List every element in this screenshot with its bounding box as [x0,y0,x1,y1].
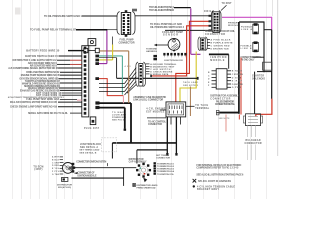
wire T2 tan mid [189,87,191,117]
svg-text:ENGINE TEMP SENSOR WIRE NO 35: ENGINE TEMP SENSOR WIRE NO 35 [21,74,61,77]
wire W3 to ignition coil [135,15,209,17]
svg-text:(4057): (4057) [34,168,42,171]
svg-text:SEE ALSO ILLUSTRATION STARTING: SEE ALSO ILLUSTRATION STARTING PAGE 6 [196,174,244,177]
right pins thick rows [95,84,124,110]
svg-text:SEE NOTE: SEE NOTE [219,118,231,120]
svg-text:CONNECTOR IGNITION SYSTEM: CONNECTOR IGNITION SYSTEM [76,162,106,164]
svg-text:MODULE: MODULE [210,59,224,62]
svg-text:CONNECTOR: CONNECTOR [156,158,170,160]
svg-text:F GROUND: F GROUND [232,84,243,86]
svg-text:PLUG 4057: PLUG 4057 [84,127,100,130]
svg-text:G TAN: G TAN [52,173,60,176]
right bus black segment [271,30,273,99]
starter solenoid box [252,62,272,80]
svg-text:CHECK ENGINE LAMP DRIVE WIRE N: CHECK ENGINE LAMP DRIVE WIRE NO 419 [10,106,58,109]
EST module U3 [166,102,186,125]
svg-text:SET TIMING LEAD: SET TIMING LEAD [79,149,99,152]
tick mark above capsule [132,9,137,12]
connector C1 fuel pump connector [117,10,135,44]
svg-text:BATTERY FEED WIRE 30: BATTERY FEED WIRE 30 [26,50,60,53]
faint smudge top left [15,8,21,15]
svg-text:A-2: A-2 [167,9,174,12]
set timing harness wires [100,103,178,163]
tan wire [99,50,128,52]
svg-text:TERMINAL: TERMINAL [195,107,210,110]
long wire L2 lower [71,168,123,186]
ECU connector tail [80,117,101,149]
svg-text:TO SPARK PLUG 1: TO SPARK PLUG 1 [157,162,175,165]
svg-text:EST MODULE: EST MODULE [146,111,164,113]
svg-text:A PINK BLACK: A PINK BLACK [211,38,231,41]
svg-text:E SERIAL DATA: E SERIAL DATA [150,73,168,76]
terminal rows right of C3 [146,63,177,76]
red ECM wire [95,77,123,95]
wire W6 thick feed to rail [216,110,239,120]
svg-text:JUNCTION BLOCK: JUNCTION BLOCK [80,144,101,146]
svg-text:PULSE GENERATOR: PULSE GENERATOR [216,100,234,103]
wire W1 to fuel pump connector [44,14,118,18]
svg-text:IGNITION MODULE: IGNITION MODULE [78,175,97,177]
connector C3 ALDL fan-in [125,62,167,102]
svg-text:TO SPARK PLUG 4: TO SPARK PLUG 4 [157,170,175,173]
ignition module U2 tach filter [208,54,243,89]
svg-text:COIL: COIL [204,9,212,13]
svg-text:F PPL: F PPL [52,171,60,173]
svg-text:SOLENOID: SOLENOID [252,78,265,80]
svg-text:OIL PRESSURE SWITCH NO 2: OIL PRESSURE SWITCH NO 2 [150,26,185,29]
label EST left [146,108,166,127]
label injector feed [149,6,175,12]
svg-text:B BLK: B BLK [52,160,60,162]
svg-text:IGN (4 PLUG): IGN (4 PLUG) [58,186,71,189]
junction block rails [239,22,272,114]
svg-text:D RED: D RED [52,165,60,167]
TO ECM label rows [33,156,63,176]
svg-text:SEE DETAIL B: SEE DETAIL B [79,151,96,154]
svg-text:B TACH: B TACH [232,70,242,73]
ECU connector main strip [82,46,89,117]
svg-text:TO DIST: TO DIST [222,3,233,5]
purple wire [95,31,107,66]
distributor note [133,183,158,189]
svg-text:TACH LEAD: TACH LEAD [183,81,198,84]
svg-text:A-B CONDITIONING SIGNAL DETECT: A-B CONDITIONING SIGNAL DETECTOR NO 66 [8,67,59,70]
wire R2 red ignition feed [150,26,211,77]
wire Y1 yellow EST [180,52,196,102]
svg-text:TO SPARK PLUG 3: TO SPARK PLUG 3 [157,168,175,171]
svg-text:C GREEN RED: C GREEN RED [211,45,230,47]
green wire [95,55,122,95]
wire M1 magenta coil feed [222,17,272,29]
svg-text:TO MAIN: TO MAIN [112,111,125,114]
wire W5 to fuel pump relay [150,23,212,30]
connector C2 distributor pickup [198,30,236,50]
ignition coil U1 [204,3,232,32]
fusible link F1 [241,23,258,34]
svg-text:V8 ENG ONLY: V8 ENG ONLY [241,59,255,61]
svg-text:G PWR: G PWR [232,87,241,89]
svg-text:TO OIL PRESSURE SWITCH NO 1: TO OIL PRESSURE SWITCH NO 1 [44,14,83,18]
black stub down wire [99,58,117,79]
distributor arrow [143,178,147,182]
long wire L1 to distributor [74,167,136,169]
svg-text:D EST: D EST [232,77,242,79]
distributor ring [136,163,151,178]
svg-text:CONNECTOR DETAIL: CONNECTOR DETAIL [241,56,263,59]
label distributor assembly connector [210,95,239,107]
svg-text:A WHT: A WHT [52,156,60,159]
svg-text:JUNCTION BLOCK: JUNCTION BLOCK [164,60,183,62]
svg-text:SET TIMING: SET TIMING [156,155,169,157]
svg-text:CONNECTOR: CONNECTOR [148,124,162,126]
label to main loom [112,111,126,122]
svg-text:COMPONENTS REFER TO FIG 1 2 3: COMPONENTS REFER TO FIG 1 2 3 4 5 [196,167,239,170]
svg-text:CONNECTOR: CONNECTOR [210,97,230,100]
wire R1 red battery feed [176,21,212,102]
svg-text:HARNESS: HARNESS [146,50,158,53]
wire W2 fuel pump feed [30,28,118,32]
svg-text:DISTRIBUTOR LEADS: DISTRIBUTOR LEADS [137,184,159,187]
wire N1 long black tach wire [117,77,199,87]
svg-text:LINK A: LINK A [241,28,252,31]
distributor terminal rows [154,162,175,176]
svg-text:B PURPLE WHITE: B PURPLE WHITE [211,42,234,44]
coil base box [57,178,72,189]
svg-text:CONNECTOR: CONNECTOR [245,143,262,145]
svg-text:SEE FIG 5: SEE FIG 5 [112,120,125,122]
yellow wire [95,37,112,62]
ECU connector top tab [88,39,96,46]
ignition coil connector S2 [63,162,108,178]
terminal row TR mid [153,53,186,62]
label junction note [241,56,263,62]
svg-text:TO TACH: TO TACH [195,104,208,107]
svg-text:LINK B: LINK B [241,48,252,50]
svg-text:BULKHEAD: BULKHEAD [246,139,261,142]
svg-text:EXHAUST GAS RECIRC SOLENOID 43: EXHAUST GAS RECIRC SOLENOID 435 [20,89,61,92]
svg-text:LINK (ALDL) CONNECTOR: LINK (ALDL) CONNECTOR [133,99,163,102]
wire R4 red vertical [239,58,241,120]
svg-text:SPLICE JOINT IN HARNESS: SPLICE JOINT IN HARNESS [198,180,231,183]
right bus red segment R3 [256,99,272,117]
wire P1 purple EST wire [191,8,201,54]
svg-text:CONNECTOR DETAIL: CONNECTOR DETAIL [215,103,236,106]
svg-text:ASSEMBLY LINE DIAGNOSTIC: ASSEMBLY LINE DIAGNOSTIC [133,96,166,99]
wire W4 injector stub [167,8,191,12]
svg-text:423: 423 [125,65,132,68]
wire tach output [186,104,210,110]
svg-text:WIRING: WIRING [228,25,238,27]
svg-text:CONNECTOR OF: CONNECTOR OF [78,173,96,175]
svg-text:IGNITION SWITCH FEED 15: IGNITION SWITCH FEED 15 [25,55,59,58]
coolant sensor S1 [146,31,183,53]
ECU right side pins and colored wires [99,51,128,103]
svg-text:E REF: E REF [232,81,243,83]
svg-text:CONNECTOR: CONNECTOR [205,33,225,36]
distributor cap label [129,159,147,164]
label right of coil [228,21,240,27]
svg-text:D BROWN TAN: D BROWN TAN [211,47,229,50]
wire R5 faint red vertical [225,115,227,132]
svg-text:CONNECTOR: CONNECTOR [119,41,135,44]
svg-text:TO A/C CONTROL: TO A/C CONTROL [148,121,167,124]
fusible link F2 [241,41,259,52]
svg-text:SEE NOTE 2: SEE NOTE 2 [183,85,199,87]
svg-text:IDLE AIR CONTROL MOTOR WIRES 4: IDLE AIR CONTROL MOTOR WIRES 444 445 [10,101,58,104]
svg-text:FIRING ORDER 1342: FIRING ORDER 1342 [137,187,157,190]
svg-text:C GRN: C GRN [52,162,60,164]
svg-text:TO IGNITION COIL: TO IGNITION COIL [157,174,175,176]
svg-text:SENSOR: SENSOR [163,34,178,37]
svg-text:BRACKET GREY: BRACKET GREY [197,188,219,191]
ECU connector ears [84,48,100,52]
ECU left wire rows with labels [8,50,84,115]
legend notes bottom right [193,164,244,191]
svg-text:STARTER: STARTER [252,75,264,78]
pink wire down [122,96,124,104]
bulkhead connector [243,114,262,160]
svg-text:E YEL: E YEL [52,168,60,170]
svg-text:TO SPARK PLUG 2: TO SPARK PLUG 2 [157,165,175,168]
svg-text:TO FUEL PUMP RELAY TERMINAL 87: TO FUEL PUMP RELAY TERMINAL 87 [30,28,77,32]
set timing tap box [79,138,116,155]
svg-text:SERIAL DATA WIRE NO 461 TO ALD: SERIAL DATA WIRE NO 461 TO ALDL [28,112,69,115]
svg-text:SEE DETAIL A: SEE DETAIL A [80,146,98,149]
svg-text:C BYPASS: C BYPASS [232,73,244,76]
